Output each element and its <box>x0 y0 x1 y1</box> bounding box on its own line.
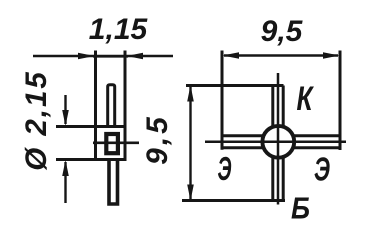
left lead end cap / extension line <box>221 51 224 150</box>
svg-text:9,5: 9,5 <box>261 15 304 48</box>
svg-text:9,5: 9,5 <box>141 114 174 165</box>
svg-text:Б: Б <box>291 191 310 226</box>
diameter dimension line lower segment with up arrow <box>62 160 69 203</box>
svg-text:Э: Э <box>314 151 330 188</box>
vertical lead strip left edge <box>271 86 274 201</box>
svg-text:1,15: 1,15 <box>89 13 149 46</box>
right lead end cap / extension line <box>339 51 342 151</box>
svg-text:К: К <box>297 80 315 118</box>
package body right side line (side view) <box>124 51 127 162</box>
central body circle <box>262 126 294 158</box>
diameter dimension line upper segment with down arrow <box>62 95 69 126</box>
crystal holder bottom edge / extension line <box>56 158 127 161</box>
svg-text:Ø 2,15: Ø 2,15 <box>20 70 53 171</box>
horizontal centerline (side view) <box>93 142 139 145</box>
horizontal lead strip bottom edge <box>222 146 340 149</box>
inner lead section rectangle <box>106 134 118 153</box>
horizontal lead strip top edge <box>222 134 340 137</box>
package body left side line (side view) <box>94 51 97 162</box>
lower lead outline (side view) <box>109 161 118 204</box>
upper lead outline (side view) <box>108 85 115 127</box>
vertical axis centerline <box>277 73 280 205</box>
top lead end cap / extension line <box>186 84 284 87</box>
vertical lead strip right edge <box>282 86 285 201</box>
crystal holder top edge / extension line <box>56 125 127 128</box>
vertical dimension line 9,5 with outward arrows <box>187 85 194 200</box>
dimension line 1,15 right tail with arrow <box>127 53 174 60</box>
dimension line 1,15 left tail with arrow <box>33 53 95 60</box>
bottom lead end cap / extension line <box>182 199 285 202</box>
package top edge (side view) <box>93 55 128 58</box>
dimension line 9,5 horizontal with outward arrows <box>223 52 340 59</box>
horizontal axis centerline <box>205 141 346 144</box>
svg-text:Э: Э <box>218 150 232 187</box>
